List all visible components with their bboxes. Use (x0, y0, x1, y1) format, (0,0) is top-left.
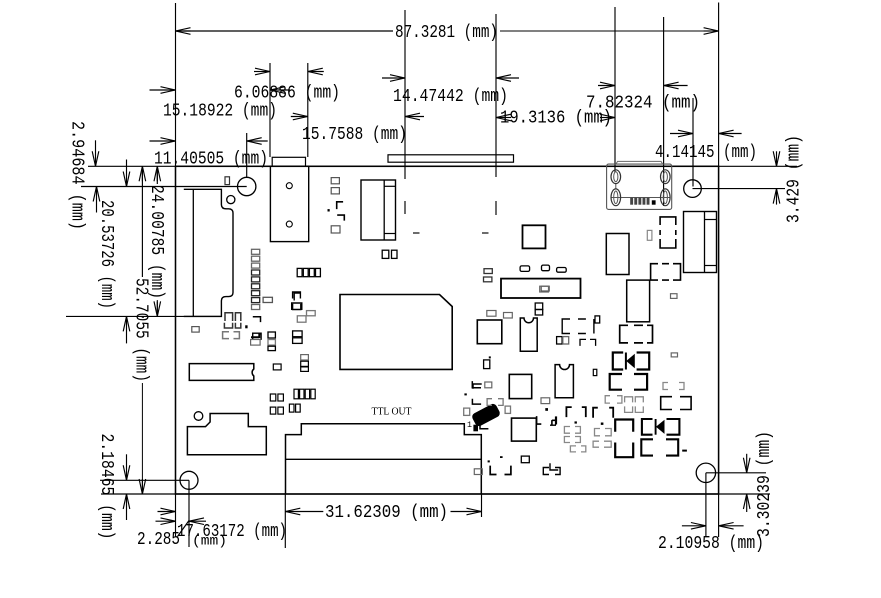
IC U5 square (509, 374, 531, 398)
dimension 17.63172 arrow (158, 508, 176, 515)
IC U1 main chip (340, 295, 452, 370)
bracket x253 y333 (253, 333, 261, 340)
pads x294 y332 (293, 331, 303, 344)
connector right edge (684, 212, 717, 273)
extension line x=693 hole TR (692, 98, 694, 187)
dimension 15.7588 arrows (291, 113, 424, 120)
dimension 7.82324 label (586, 94, 700, 114)
mounting hole top-right (684, 180, 702, 198)
dimension 24.00785 line (154, 166, 161, 316)
pad x504 y407 (505, 406, 510, 413)
extension line x=307.8 backlight connector right (307, 63, 309, 157)
brackets x537-555 y416 (537, 416, 556, 425)
gray pad x647 (647, 230, 652, 240)
extension line x=405 centerline (405, 10, 420, 233)
small rect x593 (593, 369, 597, 375)
dashed cap bracket x620 y325 (620, 325, 653, 343)
svg-text:2.18465 (mm): 2.18465 (mm) (96, 434, 116, 540)
svg-text:15.18922 (mm): 15.18922 (mm) (163, 101, 277, 121)
dot x546 y409 (545, 408, 548, 411)
extension line x=718.6 bottom (718, 494, 720, 537)
extension line y=316.4 connector bottom (66, 315, 220, 317)
pad row y389 (294, 389, 315, 399)
cap bracket x661 y397 (661, 397, 691, 410)
extension line x=270 backlight connector left (269, 63, 271, 157)
fiducial circle top-left (227, 196, 235, 204)
dimension 2.285 label (137, 530, 180, 550)
passive x331 y226 (331, 226, 340, 233)
extension line y=472.8 hole BR center (706, 472, 766, 474)
dimension 14.47442 arrows (382, 75, 519, 82)
pad w dot x484 y360 (484, 356, 491, 368)
notched rect x555 (555, 365, 573, 398)
dimension 2.10958 arrows (682, 523, 744, 530)
svg-text:6.06886 (mm): 6.06886 (mm) (234, 84, 340, 104)
svg-text:7.82324 (mm): 7.82324 (mm) (586, 94, 700, 114)
dimension 2.10958 label (658, 534, 764, 554)
connector CN1 FPC left (184, 189, 233, 316)
connector J2 top-center (361, 180, 396, 240)
small rect x595 y316 (595, 316, 600, 323)
connector micro-USB outline (607, 161, 672, 209)
IC U4 square (477, 320, 502, 344)
gray footprint x605 y396 (605, 396, 643, 413)
dimension 2.285 mm label (192, 534, 227, 550)
dimension 3.30239 label (755, 431, 775, 537)
extension line x=285.3 ttl left (284, 494, 286, 548)
micro-USB tab oval TL (611, 170, 621, 184)
extension line x=246.7 hole TL (246, 133, 248, 178)
cap bracket below D2 (641, 439, 678, 455)
dimension 87.3281 line (176, 28, 719, 35)
dot x501 y457 (500, 456, 503, 458)
dimension 31.62309 label (325, 503, 448, 523)
dimension 20.53726 arrows (123, 160, 130, 344)
mounting hole top-left (238, 177, 256, 195)
pad x540 y286 (540, 286, 549, 292)
pad pair y407 (270, 407, 283, 414)
svg-text:TTL OUT: TTL OUT (372, 407, 412, 418)
connector backlight (270, 157, 308, 241)
extension line x=496 centerline (482, 14, 496, 233)
component R-pack long (501, 279, 581, 298)
svg-text:2.10958 (mm): 2.10958 (mm) (658, 534, 764, 554)
bracket LJ x490 y466 (490, 466, 511, 475)
bracket pair x664 y383 (663, 383, 684, 390)
dimension 4.14145 arrows (670, 130, 742, 137)
extension line x=663.6 usb right tab (663, 17, 665, 206)
extension line y=166.3 left (88, 165, 176, 167)
pads x268 y333 (268, 332, 275, 351)
pads x487 y310 (487, 311, 513, 319)
svg-text:20.53726 (mm): 20.53726 (mm) (96, 200, 116, 309)
backlight connector pin 2 (286, 221, 292, 227)
micro-USB tab oval BR (661, 189, 671, 206)
pad pair y404 (289, 404, 300, 412)
pad x521 y456 (521, 456, 529, 463)
dimension 15.7588 label (302, 125, 407, 145)
dimension 4.14145 label (655, 143, 757, 163)
dashed bracket x562 y319 (562, 319, 594, 334)
svg-text:4.14145 (mm): 4.14145 (mm) (655, 143, 757, 163)
dots cluster (575, 421, 604, 425)
dimension 14.47442 label (393, 87, 508, 107)
pad x541 y398 (541, 398, 550, 404)
dimension 87.3281 label (395, 23, 498, 43)
extension line x=175.5 bottom (175, 494, 177, 537)
dimension 19.3136 label (500, 109, 612, 129)
dashed component x660 y217 (660, 217, 676, 248)
pad on TTL right edge (474, 469, 482, 475)
dimension 31.62309 line (285, 508, 481, 515)
bracket x294 y293b (293, 292, 301, 310)
svg-text:14.47442 (mm): 14.47442 (mm) (393, 87, 508, 107)
square IC U3 (523, 225, 546, 248)
dimension 19.3136 line (496, 114, 615, 121)
notched rect x520 (520, 318, 537, 351)
pad near hole TL (225, 177, 230, 185)
dimension 17.63172 label (177, 522, 287, 542)
pad x192 y327 (192, 327, 199, 333)
extension line x=706 hole BR vertical (705, 473, 707, 537)
mounting hole bottom-left (180, 471, 198, 489)
pads x535 y303 (535, 303, 543, 315)
cap bracket below D1 (610, 374, 647, 390)
LVDS pad strip (388, 155, 514, 162)
svg-text:1: 1 (467, 421, 472, 430)
bracket pair x543 y468 (543, 468, 560, 475)
bracket x474 y400b (472, 399, 481, 404)
svg-text:11.40505 (mm): 11.40505 (mm) (154, 150, 268, 170)
dimension 2.94684 arrows (92, 140, 100, 212)
svg-text:52.7055 (mm): 52.7055 (mm) (130, 278, 150, 382)
bracket pairs y407 (566, 407, 613, 418)
label pin 1 (467, 421, 472, 430)
extension line x=481.5 ttl right (481, 494, 483, 517)
dimension 3.429 label (785, 135, 805, 223)
dimension 52.7055 line (139, 166, 146, 494)
bracket below blob (480, 424, 488, 429)
dimension 2.18465 label (96, 434, 116, 540)
up-down bracket x616 (615, 420, 633, 458)
extension line y=480.3 hole BL center (100, 479, 189, 481)
connector T-shape bottom-left (187, 414, 266, 455)
svg-text:3.30239 (mm): 3.30239 (mm) (755, 431, 775, 537)
dimension 15.18922 label (163, 101, 277, 121)
pad x251 y340 (251, 340, 261, 346)
dimension 52.7055 label (130, 278, 150, 382)
pad x307 y309 (307, 311, 316, 316)
tick x682 y450 (682, 450, 687, 452)
micro-USB pin row (630, 198, 655, 205)
component tall x627 (627, 280, 650, 322)
crystal X1 footprint (189, 364, 254, 381)
pad x670 y294 (671, 294, 678, 299)
label TTL OUT (372, 407, 412, 418)
gray bracket cluster (564, 427, 611, 452)
board outline (176, 166, 719, 494)
svg-text:2.285: 2.285 (137, 530, 180, 550)
dashed pair x650 y264 (651, 264, 681, 280)
extension line y=188.6 hole TR center (693, 188, 786, 190)
pad pair y394 (270, 394, 283, 401)
bracket pair x294 y293 (292, 293, 302, 310)
extension line x=615 usb left tab (614, 7, 616, 172)
dimension 24.00785 label (146, 185, 166, 299)
svg-text:31.62309 (mm): 31.62309 (mm) (325, 503, 448, 523)
dimension 2.94684 label (66, 121, 86, 230)
pads x301 y355 (301, 355, 309, 372)
dimension 3.30239 arrows (743, 454, 750, 512)
dimension 3.429 arrows (773, 151, 780, 204)
dimension 11.40505 arrows (150, 138, 268, 145)
extension line y=494 bottom full (101, 493, 770, 495)
bracket x473 y384 (473, 384, 482, 389)
pads pair x487 y399 (487, 399, 503, 406)
dimension 2.285 arrows (156, 518, 207, 525)
bracket x252 y317 (253, 317, 261, 322)
connector TTL OUT (286, 424, 482, 494)
backlight connector pin 1 (286, 183, 292, 189)
extension line x=189 hole BL vertical (188, 480, 190, 547)
svg-text:3.429 (mm): 3.429 (mm) (785, 135, 805, 223)
bracket black x472 y381 (472, 381, 492, 388)
dimension 7.82324 arrows (598, 82, 688, 89)
pad row of four (297, 268, 320, 276)
extension line y=186.5 hole TL center (81, 186, 247, 188)
dimension 20.53726 label (96, 200, 116, 309)
extension line y=166.3 right (719, 165, 797, 167)
dimension 6.06886 label (234, 84, 340, 104)
dimension 15.18922 arrows (150, 87, 291, 94)
dimension 11.40505 label (154, 150, 268, 170)
bracket x550 y463 (550, 463, 558, 470)
extension line board right edge (718, 3, 720, 167)
dot x465 y394 (464, 393, 466, 395)
pads below J2 (382, 250, 397, 258)
IC U6 square (512, 418, 537, 441)
bracket bar x556 y416 (550, 416, 556, 425)
extension line board left edge (175, 3, 177, 166)
component tall x606 (606, 234, 629, 275)
pads near U3 (484, 265, 567, 282)
micro-USB tab oval BL (611, 189, 621, 206)
diode D1 (613, 353, 649, 370)
pad x463 y408 (464, 408, 470, 415)
pad x671 y353 (671, 353, 677, 357)
bracket cluster y312-341 (223, 313, 248, 339)
svg-text:(mm): (mm) (192, 534, 227, 550)
transistor Q1 blob (471, 402, 501, 431)
svg-text:2.94684 (mm): 2.94684 (mm) (66, 121, 86, 230)
pads x557 y337 (557, 337, 569, 344)
svg-text:15.7588 (mm): 15.7588 (mm) (302, 125, 407, 145)
dot x328 (328, 209, 330, 211)
svg-text:87.3281 (mm): 87.3281 (mm) (395, 23, 498, 43)
dimension 6.06886 arrows (254, 68, 324, 75)
micro-USB tab oval TR (661, 170, 671, 184)
pad column x252 (252, 249, 260, 309)
pad x263 y297 (263, 297, 272, 302)
fiducial circle bottom-left (194, 412, 203, 421)
diode D2 (642, 419, 680, 435)
tick pad x251 y334 (251, 333, 261, 338)
tick x488 y461 (488, 460, 490, 462)
passive C cluster x332 (331, 178, 339, 194)
bracket x580 y339 (580, 339, 596, 346)
dimension 2.18465 arrows (123, 454, 130, 520)
mounting hole bottom-right (696, 463, 715, 482)
dimension 2.285 leader (178, 521, 190, 537)
pad x298 y316 (297, 316, 306, 322)
pad x273 y364 (273, 364, 281, 370)
bracket pair x337 (337, 202, 345, 221)
